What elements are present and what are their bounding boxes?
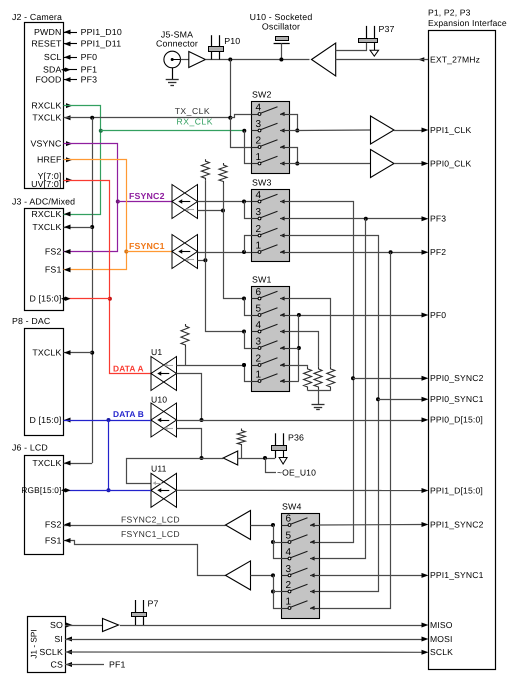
svg-text:4: 4 xyxy=(286,547,292,558)
svg-text:P37: P37 xyxy=(379,24,395,34)
svg-text:4: 4 xyxy=(256,320,262,331)
svg-text:U10 - Socketed: U10 - Socketed xyxy=(250,12,313,22)
svg-text:FS2: FS2 xyxy=(45,246,62,256)
svg-text:HREF: HREF xyxy=(37,155,62,165)
svg-text:SCLK: SCLK xyxy=(39,647,63,657)
svg-text:3: 3 xyxy=(256,119,262,130)
svg-text:U11: U11 xyxy=(151,464,167,474)
svg-text:CS: CS xyxy=(50,659,63,669)
svg-text:MISO: MISO xyxy=(430,620,453,630)
svg-text:U10: U10 xyxy=(151,395,167,405)
svg-text:D [15:0]: D [15:0] xyxy=(29,415,61,425)
svg-text:Expansion Interface: Expansion Interface xyxy=(428,18,507,28)
svg-text:P7: P7 xyxy=(148,599,159,609)
svg-text:SDA: SDA xyxy=(43,65,62,75)
svg-text:RXCLK: RXCLK xyxy=(31,100,61,110)
svg-text:PF3: PF3 xyxy=(430,214,446,224)
svg-text:RESET: RESET xyxy=(31,39,62,49)
svg-text:TXCLK: TXCLK xyxy=(32,113,61,123)
svg-text:PF3: PF3 xyxy=(81,74,98,84)
svg-text:SCL: SCL xyxy=(44,52,62,62)
svg-text:U1: U1 xyxy=(151,347,162,357)
svg-text:EXT_27MHz: EXT_27MHz xyxy=(430,54,480,64)
svg-text:5: 5 xyxy=(256,303,262,314)
svg-text:PF0: PF0 xyxy=(430,310,446,320)
svg-text:MOSI: MOSI xyxy=(430,634,453,644)
svg-text:TXCLK: TXCLK xyxy=(32,347,61,357)
svg-text:J1 - SPI: J1 - SPI xyxy=(30,629,39,658)
svg-text:PPI0_SYNC1: PPI0_SYNC1 xyxy=(430,394,484,404)
svg-text:2: 2 xyxy=(256,224,262,235)
svg-text:PWDN: PWDN xyxy=(34,27,61,37)
svg-text:3: 3 xyxy=(256,336,262,347)
svg-text:FS1: FS1 xyxy=(45,265,62,275)
svg-text:DATA A: DATA A xyxy=(113,363,144,373)
svg-text:Oscillator: Oscillator xyxy=(262,22,300,32)
svg-text:RGB[15:0]: RGB[15:0] xyxy=(21,485,61,495)
svg-text:FS2: FS2 xyxy=(45,519,62,529)
svg-text:1: 1 xyxy=(256,240,262,251)
svg-text:SI: SI xyxy=(54,634,63,644)
svg-text:RXCLK: RXCLK xyxy=(31,209,61,219)
svg-text:SW4: SW4 xyxy=(282,502,302,512)
svg-text:SW2: SW2 xyxy=(252,90,272,100)
svg-text:PPI0_D[15:0]: PPI0_D[15:0] xyxy=(430,415,483,425)
svg-text:3: 3 xyxy=(286,564,292,575)
svg-text:J6 - LCD: J6 - LCD xyxy=(12,443,48,453)
svg-text:PF2: PF2 xyxy=(430,247,446,257)
svg-text:4: 4 xyxy=(256,190,262,201)
svg-text:J3 - ADC/Mixed: J3 - ADC/Mixed xyxy=(12,197,75,207)
svg-text:SCLK: SCLK xyxy=(430,647,453,657)
svg-text:PPI1_D[15:0]: PPI1_D[15:0] xyxy=(430,485,483,495)
svg-text:~OE_U10: ~OE_U10 xyxy=(277,468,316,478)
svg-text:J2 - Camera: J2 - Camera xyxy=(12,12,62,22)
svg-text:PPI1_D10: PPI1_D10 xyxy=(81,27,122,37)
svg-text:P1, P2, P3: P1, P2, P3 xyxy=(428,8,471,18)
svg-text:DATA B: DATA B xyxy=(113,409,144,419)
svg-text:FSYNC2: FSYNC2 xyxy=(129,191,165,201)
svg-text:UV[7:0]: UV[7:0] xyxy=(31,179,61,189)
svg-text:TXCLK: TXCLK xyxy=(32,458,61,468)
svg-text:SO: SO xyxy=(50,620,63,630)
svg-text:FSYNC1_LCD: FSYNC1_LCD xyxy=(121,529,180,539)
svg-text:PF1: PF1 xyxy=(81,65,98,75)
svg-text:1: 1 xyxy=(256,152,262,163)
svg-text:P10: P10 xyxy=(224,36,240,46)
svg-text:P36: P36 xyxy=(288,433,304,443)
svg-text:2: 2 xyxy=(286,580,292,591)
svg-text:PF0: PF0 xyxy=(81,52,98,62)
svg-text:PPI1_SYNC2: PPI1_SYNC2 xyxy=(430,519,484,529)
svg-text:1: 1 xyxy=(256,369,262,380)
svg-text:Connector: Connector xyxy=(156,39,198,49)
svg-text:6: 6 xyxy=(286,513,292,524)
svg-text:3: 3 xyxy=(256,207,262,218)
svg-text:PPI1_CLK: PPI1_CLK xyxy=(430,125,471,135)
svg-text:1: 1 xyxy=(286,596,292,607)
svg-text:FOOD: FOOD xyxy=(35,74,61,84)
svg-text:FSYNC1: FSYNC1 xyxy=(129,241,165,251)
svg-text:SW3: SW3 xyxy=(252,178,272,188)
svg-text:6: 6 xyxy=(256,287,262,298)
svg-text:TX_CLK: TX_CLK xyxy=(175,106,210,116)
svg-text:PPI1_D11: PPI1_D11 xyxy=(81,39,122,49)
svg-text:TXCLK: TXCLK xyxy=(32,222,61,232)
svg-text:4: 4 xyxy=(256,102,262,113)
svg-text:PPI0_CLK: PPI0_CLK xyxy=(430,158,471,168)
svg-text:2: 2 xyxy=(256,353,262,364)
svg-text:PPI1_SYNC1: PPI1_SYNC1 xyxy=(430,570,484,580)
svg-text:P8 - DAC: P8 - DAC xyxy=(12,316,51,326)
svg-text:2: 2 xyxy=(256,135,262,146)
svg-text:5: 5 xyxy=(286,530,292,541)
svg-text:PPI0_SYNC2: PPI0_SYNC2 xyxy=(430,373,484,383)
svg-text:VSYNC: VSYNC xyxy=(30,138,62,148)
svg-text:FS1: FS1 xyxy=(45,535,62,545)
svg-text:PF1: PF1 xyxy=(109,660,126,670)
svg-text:FSYNC2_LCD: FSYNC2_LCD xyxy=(121,515,180,525)
svg-text:D [15:0]: D [15:0] xyxy=(29,294,61,304)
svg-text:SW1: SW1 xyxy=(252,275,272,285)
